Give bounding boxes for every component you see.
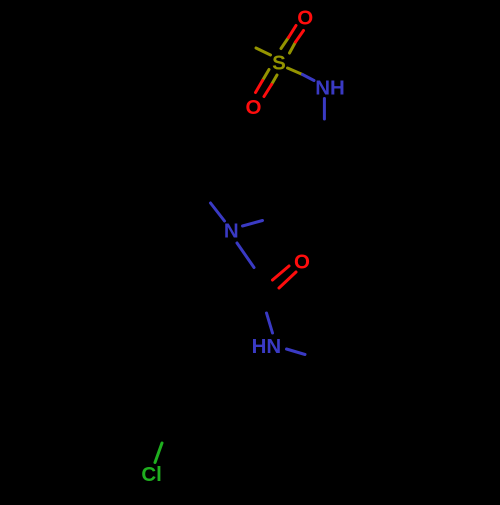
svg-text:O: O — [297, 7, 313, 30]
svg-text:Cl: Cl — [141, 463, 162, 486]
bond N(H)-CH2 benzyl — [287, 349, 306, 355]
bond S=O top, line 2 — [290, 42, 296, 53]
bond C=O amide, line 2 — [279, 272, 296, 288]
bond N1-C2 (indoline) — [211, 203, 225, 221]
bond S-CH3 (sulfur half) — [256, 48, 271, 55]
bond C=O amide, line 1 — [273, 266, 290, 280]
svg-text:S: S — [272, 51, 286, 74]
svg-text:NH: NH — [315, 77, 345, 100]
bond S=O bottom, line 1 — [263, 70, 270, 81]
svg-text:HN: HN — [252, 335, 282, 358]
svg-text:N: N — [224, 220, 239, 243]
bond S=O bottom, line 2 — [272, 75, 278, 85]
bond C-N(H) amide — [267, 313, 273, 333]
svg-text:O: O — [294, 250, 310, 273]
bond N1-C7a (indoline) — [243, 221, 263, 227]
bond Cl-C (chlorine half) — [155, 443, 162, 463]
bond N(H)-C aryl vertical — [323, 99, 326, 120]
bond S-N(H) — [288, 68, 303, 75]
svg-text:O: O — [246, 96, 262, 119]
bond N1-CH2 — [237, 243, 254, 268]
bond S=O top, line 1 — [281, 38, 289, 49]
